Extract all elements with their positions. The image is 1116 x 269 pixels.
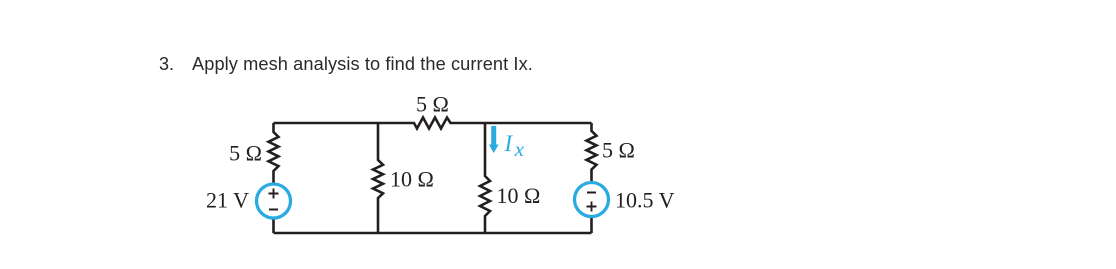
svg-text:5 Ω: 5 Ω (602, 138, 635, 163)
svg-text:10 Ω: 10 Ω (390, 166, 434, 191)
svg-text:21 V: 21 V (206, 188, 249, 213)
svg-text:Ix: Ix (504, 131, 525, 161)
svg-text:10.5 V: 10.5 V (615, 187, 675, 212)
svg-text:5 Ω: 5 Ω (229, 141, 262, 166)
svg-text:5 Ω: 5 Ω (416, 92, 449, 117)
svg-text:10 Ω: 10 Ω (497, 183, 541, 208)
